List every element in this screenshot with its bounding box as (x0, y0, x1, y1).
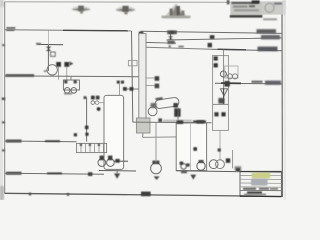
match-line bar bottom center (141, 192, 151, 197)
border frame top (5, 1, 282, 4)
valve square on line J left (158, 118, 162, 122)
line D (manifold to right edge) (146, 47, 212, 49)
bottom line K2 drum bottom (176, 170, 236, 173)
dot at start of vertical x87 (84, 96, 87, 99)
small dash left of circle (44, 70, 47, 72)
line H between V1 and column (124, 88, 139, 90)
stem from line G (70, 77, 72, 80)
drum left marks (151, 103, 157, 108)
manifold circle (220, 71, 226, 77)
dot near x87 bottom (85, 133, 88, 136)
manifold dark blob (224, 81, 229, 87)
line L dark dash (45, 140, 60, 142)
column side instrument square upper (155, 76, 160, 81)
manifold square 2 (214, 63, 218, 67)
line D dark segment (218, 48, 247, 51)
pump A cap (100, 156, 104, 161)
lower box drop (219, 130, 221, 160)
line D label right (258, 47, 278, 52)
vertical from line F down to line G (47, 45, 49, 71)
border tick bottom x68 (67, 193, 69, 196)
line A (left feed to downcomer) (5, 30, 131, 31)
border tick left y99 (2, 98, 5, 101)
line M (5, 173, 104, 174)
line C label right (261, 35, 280, 39)
column top nozzle square lower (139, 38, 144, 43)
title block text smudges (243, 188, 256, 190)
line H square 1 (123, 87, 127, 91)
pump cluster D smudge (235, 166, 242, 171)
manifold square 1 (214, 56, 218, 60)
control valve cluster on line B (167, 30, 177, 44)
instrument stems (58, 67, 60, 80)
column top nozzle square upper (139, 32, 144, 36)
line J horizontal y122 (163, 120, 192, 123)
instrument square 2 (64, 62, 69, 67)
dot left of x87 bottom (74, 133, 77, 136)
bowtie valve on left vertical (46, 47, 52, 51)
line L (5, 140, 77, 143)
paper edge shading left (0, 0, 3, 200)
pump C stem (155, 123, 157, 163)
pump B circle under V1 (107, 159, 115, 167)
line L label (6, 140, 22, 143)
V1 instrument tie line (99, 102, 104, 104)
flag triangle (70, 61, 74, 65)
exchanger bank (77, 143, 107, 152)
title block gray box (251, 179, 268, 186)
line M label (6, 172, 22, 175)
drum right drop line (177, 108, 179, 122)
line E label right (265, 81, 281, 85)
line A label (6, 27, 15, 31)
column T1 bottom stem (142, 133, 144, 137)
line M dark dash (47, 172, 62, 174)
D2 top nozzle right (196, 120, 204, 123)
paper edge shading top-left corner (0, 0, 4, 7)
vertical line x87 (86, 98, 88, 142)
bottom line K1 vessel bottom (99, 170, 136, 173)
lower box square 1 (214, 112, 218, 116)
column side instrument square lower (155, 84, 160, 89)
column T1 bottom flange (136, 118, 150, 133)
drum top-left dark dashes (155, 97, 162, 100)
ovhd drum (tilted) (155, 97, 180, 109)
pump cluster D vertical (232, 150, 234, 168)
faint vertical above line F (47, 31, 49, 45)
manifold funnel (220, 89, 227, 96)
lower box square 2 (221, 112, 225, 116)
manifold lower marks (218, 98, 224, 104)
instrument circle on line G (47, 65, 57, 75)
mark under table (263, 18, 277, 20)
V1 top instrument square 1 (91, 96, 95, 100)
pump A circle under V1 (98, 159, 106, 167)
tick mark top edge x228 (227, 0, 230, 4)
manifold lower box (213, 104, 229, 130)
pump cluster D square (226, 158, 230, 162)
vessel V1 tall (104, 95, 124, 169)
D2 pump cap (199, 160, 204, 163)
nozzle dots above right of V1 (117, 81, 120, 84)
line G (5, 75, 139, 78)
valve square above line D (208, 43, 212, 47)
border tick left y150 (2, 149, 5, 151)
pump circle left of drum (148, 107, 157, 116)
border tick left y45 (2, 44, 5, 46)
pump C circle bottom center (151, 163, 162, 174)
logo smudge 1 (71, 6, 91, 14)
pump discharge valve (115, 159, 119, 163)
V1 top instrument square 2 (96, 96, 100, 100)
paper edge shading bottom-left corner (0, 186, 4, 200)
drum right dark cluster (173, 103, 180, 117)
instrument square 1 (56, 62, 61, 67)
valve dot on x87 (85, 126, 89, 130)
D2 top nozzle left (177, 120, 184, 124)
stubs from column to side squares (146, 77, 155, 79)
V1 dark instrument dot (97, 107, 101, 111)
title block (240, 171, 281, 196)
logo smudge 2 (115, 6, 136, 15)
border frame right (281, 2, 283, 197)
line J dark dash (193, 120, 206, 122)
manifold vertical main (223, 50, 225, 105)
small drum nozzle dot 2 (74, 80, 77, 83)
pump box right of manifold (225, 66, 238, 78)
drain triangle under drum D2 (190, 175, 196, 180)
pump B cap (108, 156, 112, 161)
D2 internal vertical (190, 123, 192, 171)
line I column bottom to drum (143, 136, 176, 138)
border tick bottom x30 (29, 193, 31, 196)
stub F left tag (36, 43, 41, 45)
line B label right (257, 29, 277, 33)
line C valve square (210, 35, 215, 39)
left feed stub line F (37, 43, 63, 45)
pump discharge line (114, 160, 128, 162)
revision table bottom bar (230, 15, 263, 18)
marks below drum cluster (64, 93, 72, 95)
line M valve (88, 172, 92, 176)
paper edge shading top-right (282, 0, 286, 15)
line H square 2 (130, 87, 134, 91)
line A downcomer vertical (132, 31, 133, 122)
pump C cap (152, 161, 159, 164)
paper edge shading right (284, 0, 286, 200)
line E to right edge (215, 82, 282, 85)
line G label band (6, 74, 34, 77)
manifold loop upper (213, 56, 229, 105)
logo smudge 3 flare (162, 4, 191, 19)
border tick left y122 (2, 121, 5, 123)
small box near column x128 (128, 60, 137, 65)
drum D2 body (176, 123, 206, 171)
line B (column ovhd to right edge) (141, 31, 282, 33)
revision table top right (230, 0, 282, 14)
line C (second ovhd line) (167, 38, 282, 40)
line C2 column to valve (144, 41, 176, 44)
V1 top instrument stems (91, 101, 95, 105)
D2 pump circle (197, 162, 205, 170)
column T1 body (139, 34, 146, 119)
border frame bottom (5, 193, 282, 196)
line E dark segment (221, 82, 241, 84)
line E label mid (252, 81, 263, 83)
pump C drain triangles (154, 176, 160, 180)
line A dark segment (63, 29, 128, 32)
D2 bottom cluster (180, 162, 190, 174)
drain funnel under pumps (114, 173, 120, 178)
square on drop line x220 (218, 148, 221, 151)
tick left of title block (236, 168, 240, 172)
border frame left (4, 2, 6, 194)
small drum cluster box (63, 80, 79, 90)
title block green highlight (252, 173, 270, 179)
D2 level instrument (193, 147, 197, 151)
pump cluster D circles (209, 160, 218, 169)
small box under bowtie (51, 52, 56, 56)
small drum nozzle dot 1 (64, 80, 67, 83)
small drum circles (64, 88, 70, 94)
